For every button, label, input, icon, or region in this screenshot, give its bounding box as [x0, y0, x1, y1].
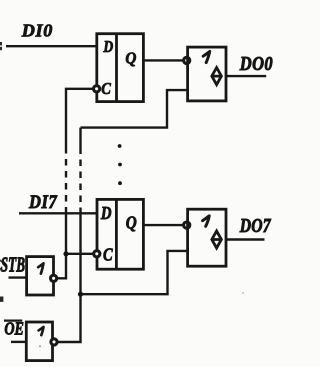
- edge tick near DI0: [0, 42, 2, 50]
- svg-text:Q: Q: [125, 50, 136, 68]
- label 1 of U3: [203, 51, 210, 62]
- junction OE net to enable of U4: [78, 292, 83, 297]
- edge blob bottom-left: [0, 297, 3, 302]
- label 1 of U5: [38, 263, 43, 273]
- wire OE net vertical solid top: [79, 128, 81, 148]
- wire DO0 output: [226, 75, 266, 77]
- bubble at output of U6: [51, 339, 57, 345]
- bubble at input of buffer U3: [184, 57, 190, 63]
- svg-text:OE: OE: [4, 320, 24, 339]
- wire STB net dashed middle: [65, 147, 67, 211]
- wire Q of U1 to buffer: [143, 59, 183, 61]
- ellipsis dots: [118, 144, 122, 185]
- label 1 of U6: [39, 327, 44, 335]
- wire STB net vertical (solid top from C of U1): [66, 89, 93, 147]
- latch U2 (D flip-flop DI7): [97, 199, 143, 269]
- svg-text:D: D: [100, 202, 112, 223]
- tristate diamond symbol of U4: [212, 231, 222, 248]
- wire DI7 input: [19, 212, 96, 214]
- speck right of DO7 enable: [242, 292, 244, 294]
- wire DO7 output: [226, 238, 265, 240]
- edge fragment left of STB: [0, 260, 2, 271]
- wire enable to U4: [81, 251, 188, 294]
- svg-text:C: C: [103, 244, 114, 265]
- overline of OE: [4, 320, 22, 322]
- wire DI0 input: [6, 45, 96, 47]
- wire OE net dashed middle: [79, 148, 81, 211]
- wire enable to U3: [81, 90, 188, 128]
- latch U1 (D flip-flop DI0): [97, 34, 144, 102]
- bubble at C input of U1: [94, 86, 100, 92]
- bubble at input of buffer U4: [184, 222, 190, 228]
- buffer U3 (tristate DO0): [188, 47, 226, 101]
- junction STB net to C of U2: [63, 251, 68, 256]
- svg-text:C: C: [101, 80, 111, 98]
- wire Q of U2 to buffer: [143, 224, 183, 226]
- wire STB input: [9, 276, 27, 278]
- svg-text:DO0: DO0: [239, 53, 273, 75]
- wire OE input: [11, 341, 26, 343]
- svg-text:STB: STB: [1, 254, 25, 277]
- wire C of U2 from STB net: [66, 253, 93, 255]
- bubble at C input of U2: [94, 251, 100, 257]
- svg-text:DI7: DI7: [28, 191, 58, 213]
- inverter U5 (STB): [27, 257, 54, 295]
- inverter U6 (OE): [26, 322, 52, 361]
- svg-text:DI0: DI0: [21, 21, 53, 41]
- bubble at output of U5: [51, 275, 57, 281]
- wire OE net solid bottom: [57, 211, 80, 343]
- latch U1 divider: [115, 34, 118, 102]
- speck in OE box: [39, 345, 41, 347]
- buffer U4 (tristate DO7): [188, 209, 226, 266]
- svg-text:DO7: DO7: [239, 214, 272, 236]
- svg-text:Q: Q: [126, 213, 137, 233]
- svg-text:D: D: [103, 38, 114, 57]
- wire STB net solid bottom: [57, 211, 66, 279]
- label 1 of U4: [203, 216, 210, 226]
- latch U2 divider: [115, 199, 118, 269]
- tristate diamond symbol of U3: [212, 68, 222, 85]
